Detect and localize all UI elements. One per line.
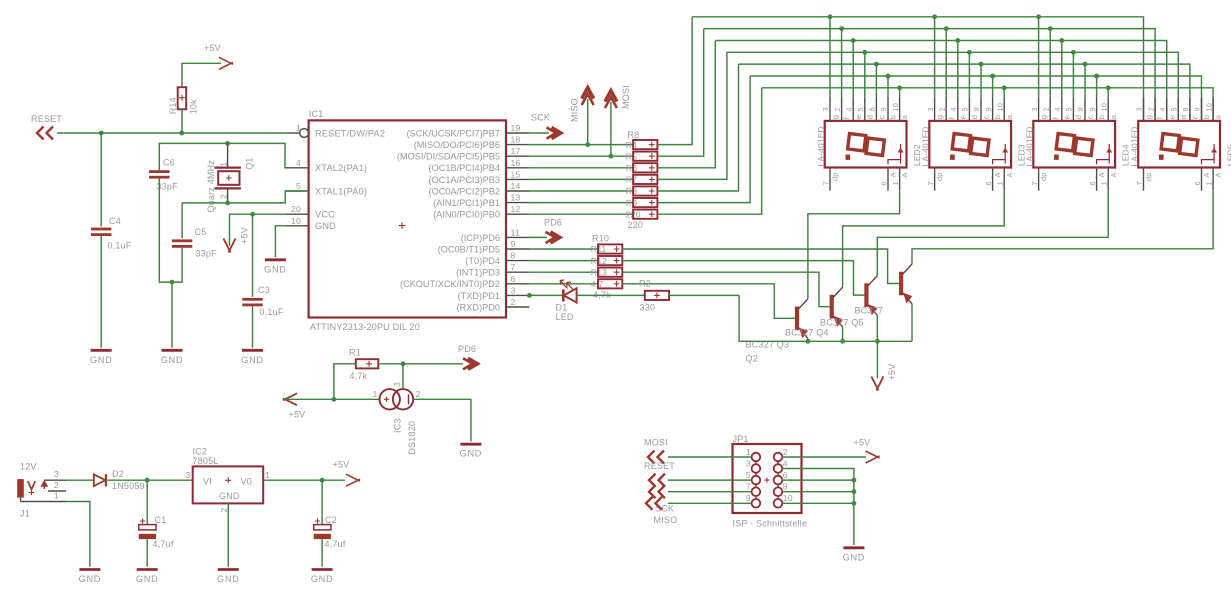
wire drop L3 to display 1 [852,41,854,99]
svg-text:A: A [1109,172,1118,177]
wire IC2 GND pin to ground [227,503,229,566]
port arrow MOSI (JP1) [648,451,664,464]
svg-text:DS1820: DS1820 [407,421,417,455]
svg-text:GND: GND [460,449,483,459]
svg-text:Q2: Q2 [746,354,758,364]
junction bus L5 display 1 drop [874,62,878,66]
wire drop L4 to display 2 [968,52,970,98]
wire IC pin to resistor R8 row 2 [529,155,633,157]
svg-text:dp: dp [1039,172,1048,181]
svg-text:1: 1 [54,490,59,500]
svg-text:5: 5 [296,181,301,191]
svg-text:7: 7 [821,181,830,185]
wire IC pin to resistor R8 row 7 [529,213,633,215]
wire R10.4 to transistor base Q2 [622,284,795,319]
svg-text:3: 3 [746,458,751,468]
svg-text:RESET: RESET [31,114,62,124]
svg-text:4: 4 [844,107,853,111]
svg-text:b: b [1202,115,1211,119]
svg-text:6: 6 [1088,181,1097,185]
wire resistor R8.7 to top bundle [657,88,761,214]
resistor R1 [356,359,379,368]
svg-text:dp: dp [831,172,840,181]
transistor Q5 BC327 [899,272,903,296]
wire JP1 pin8 to rail [782,491,854,493]
transistor Q3 BC327 [830,295,834,319]
svg-text:(RXD)PD0: (RXD)PD0 [457,302,500,312]
svg-text:12V: 12V [20,462,37,472]
junction bus L1 display 1 drop [828,15,832,19]
svg-text:XTAL2(PA1): XTAL2(PA1) [315,163,367,173]
ground JP1 [843,546,864,549]
svg-text:R2: R2 [639,279,651,289]
wire segment bus line L4 [727,52,1178,121]
junction bus L1 display 2 drop [933,15,937,19]
supply +5V arrow (down, rail) [871,377,883,391]
svg-text:A: A [1202,172,1211,177]
svg-text:c: c [1086,115,1095,119]
wire segment bus line L5 [739,64,1190,121]
svg-text:a: a [1109,114,1118,119]
junction bus L7 display 1 drop [898,86,902,90]
wire VCC to C3 [252,214,254,297]
svg-text:GND: GND [219,491,240,501]
svg-text:IC1: IC1 [309,109,324,119]
svg-text:g: g [831,115,840,119]
svg-text:0,1uF: 0,1uF [108,241,132,251]
port arrow RESET (JP1) [649,474,665,487]
capacitor C3 [242,298,262,301]
svg-text:17: 17 [511,146,521,156]
wire resistor R8.6 to top bundle [657,76,750,203]
svg-text:19: 19 [511,123,521,133]
svg-text:(OC0B/T1)PD5: (OC0B/T1)PD5 [438,244,500,254]
IC IC1 ATTINY2313 box [309,120,506,317]
svg-text:9: 9 [879,107,888,111]
svg-text:9: 9 [746,493,751,503]
svg-text:VI: VI [203,477,212,487]
svg-text:e: e [854,115,863,119]
transistor Q4 BC327 [864,283,868,307]
junction C6/C5 ground join [170,280,174,284]
display LED4 LA-401ED box [1033,121,1115,168]
wire display LED2 anode to Q2 collector [808,191,900,299]
wire segment bus line L3 [715,41,1166,121]
svg-text:GND: GND [136,574,159,584]
junction bus L3 display 2 drop [956,38,960,42]
svg-text:d: d [865,115,874,119]
svg-text:7: 7 [1135,181,1144,185]
wire resistor R8.2 to top bundle [657,29,703,157]
svg-text:LA-401ED: LA-401ED [1025,126,1035,166]
svg-text:3: 3 [926,107,935,111]
svg-text:+5V: +5V [204,43,221,53]
wire R2 to +5V rail [668,294,739,296]
svg-text:3: 3 [821,107,830,111]
port arrow RESET (left double chevron) [37,127,53,140]
junction MISO tap [586,143,590,147]
junction bus L3 display 3 drop [1060,38,1064,42]
svg-text:5: 5 [1170,107,1179,111]
port arrow SCK (JP1) [649,485,665,498]
svg-text:9: 9 [984,107,993,111]
svg-text:ISP - Schnittstelle: ISP - Schnittstelle [733,519,808,529]
wire C3 to GND [252,306,254,348]
svg-text:4: 4 [1158,107,1167,111]
junction bus L1 display 3 drop [1037,15,1041,19]
crystal Q1 [227,143,229,167]
net GND wire (pin 10) [275,226,285,257]
wire RESET to JP1 pin5 [668,479,752,481]
svg-text:1: 1 [265,470,270,480]
svg-text:18: 18 [511,135,521,145]
svg-text:4: 4 [296,158,301,168]
svg-text:(AIN0/PCI0)PB0: (AIN0/PCI0)PB0 [433,210,500,220]
svg-text:+5V: +5V [240,227,250,244]
junction bus L4 display 3 drop [1071,50,1075,54]
wire JP1 pin2 to +5V [782,456,866,458]
svg-text:BC327 Q4: BC327 Q4 [785,327,829,337]
svg-text:R8: R8 [628,130,640,140]
wire drop L5 to display 2 [980,64,982,98]
svg-text:GND: GND [311,574,334,584]
net SCK wire [529,132,549,134]
display LED3 bottom pin stubs (7/dp, 6, 1/A) [934,168,936,191]
wire drop L7 to display 3 [1107,88,1109,98]
wire drop L5 to display 1 [875,64,877,98]
wire drop L7 to display 1 [899,88,901,98]
wire +5V emitter rail [739,295,912,341]
wire J1 pin1 to GND [66,502,90,567]
net XTAL2 wire (C6 top to pin 4) [159,143,285,170]
display LED3 LA-401ED box [929,121,1011,168]
supply +5V arrow (power out) [346,474,360,486]
svg-text:RESET: RESET [644,461,675,471]
IC1 left pin stubs (pin1 with inverter bubble, pins 4,5,20,10) [285,132,299,134]
svg-text:LA-401ED: LA-401ED [1130,126,1140,166]
port arrow MOSI (up) [605,91,617,102]
svg-text:6: 6 [511,274,516,284]
wire segment bus line L7 [762,88,1213,121]
svg-text:10: 10 [783,493,793,503]
wire drop L7 to display 2 [1003,88,1005,98]
display LED4 seven-segment digit [1056,134,1093,156]
connector J1 power jack [17,479,24,498]
svg-text:10: 10 [1204,103,1213,112]
svg-text:13: 13 [511,193,521,203]
svg-text:12: 12 [511,204,521,214]
svg-text:1: 1 [296,123,301,133]
junction bus L6 display 1 drop [886,74,890,78]
svg-text:d: d [1179,115,1188,119]
wire segment bus line L6 [750,76,1201,121]
net MISO stem wire [587,99,589,145]
wire MISO to JP1 pin9 [668,502,752,504]
wire drop L6 to display 1 [887,76,889,98]
svg-text:g: g [1039,115,1048,119]
junction bus L3 display 1 drop [851,38,855,42]
supply +5V arrow (down, VCC) [224,239,236,253]
wire C1 to GND [146,539,148,567]
wire RESET to C4 [100,133,102,227]
junction bus L7 display 3 drop [1106,86,1110,90]
display LED5 bottom pin stubs (7/dp, 6, 1/A) [1143,168,1145,191]
svg-text:(OC1B/PCI4)PB4: (OC1B/PCI4)PB4 [429,163,500,173]
supply +5V arrow (top left) [219,57,233,69]
svg-text:7: 7 [746,482,751,492]
wire drop L1 to display 3 [1038,17,1040,98]
svg-text:6: 6 [1193,181,1202,185]
svg-text:7: 7 [1030,181,1039,185]
wire drop L5 to display 3 [1084,64,1086,98]
svg-text:MOSI: MOSI [621,85,631,109]
ground DS1820 [460,443,481,446]
svg-text:2: 2 [833,107,842,111]
capacitor C4 [91,228,111,231]
svg-text:8: 8 [868,107,877,111]
svg-text:PD6: PD6 [544,218,562,228]
svg-text:A: A [889,172,898,177]
capacitor C6 [149,170,169,173]
svg-text:(OC1A/PCI3)PB3: (OC1A/PCI3)PB3 [429,175,500,185]
svg-text:g: g [935,115,944,119]
ground at pin 10 [265,258,286,261]
wire R1 left to +5V net [334,364,356,400]
junction bus L6 display 2 drop [991,74,995,78]
svg-text:2: 2 [219,194,228,199]
svg-text:2: 2 [937,107,946,111]
svg-text:C3: C3 [258,285,270,295]
port arrow SCK [552,127,562,138]
svg-text:3: 3 [1135,107,1144,111]
net RESET wire [57,132,285,134]
svg-text:D1: D1 [556,303,568,313]
svg-text:GND: GND [843,552,866,562]
svg-text:MISO: MISO [654,515,678,525]
svg-text:(SCK/UCSK/PCI7)PB7: (SCK/UCSK/PCI7)PB7 [407,128,500,138]
svg-text:V0: V0 [241,477,252,487]
svg-text:IC3: IC3 [393,418,403,433]
svg-text:(MISO/DO/PCI6)PB6: (MISO/DO/PCI6)PB6 [414,140,500,150]
diode D2 1N5059 [94,474,106,486]
svg-text:16: 16 [511,158,521,168]
junction C2 tap [320,478,324,482]
svg-text:dp: dp [935,172,944,181]
junction rail pin8 [852,490,856,494]
svg-text:+5V: +5V [854,438,871,448]
svg-text:33pF: 33pF [196,249,218,259]
wire segment bus line L2 [704,29,1155,121]
port arrow PD6 (at IC) [551,232,561,243]
svg-text:(TXD)PD1: (TXD)PD1 [458,291,500,301]
svg-text:MISO: MISO [570,98,580,122]
junction C1 tap [145,478,149,482]
svg-text:c: c [1191,115,1200,119]
wire IC pin to resistor R8 row 5 [529,190,633,192]
port arrow PD6 (DS1820) [468,358,478,369]
junction rail pin10 [852,501,856,505]
wire D2 to IC2 VI [106,479,193,481]
junction C4 tap [99,131,103,135]
resistor R2 [645,291,669,300]
svg-text:330: 330 [640,303,656,313]
svg-text:3: 3 [54,469,59,479]
svg-text:5: 5 [746,470,751,480]
svg-text:10k: 10k [188,99,198,114]
net MOSI stem wire [610,102,612,156]
temperature sensor IC3 DS1820 [380,389,400,409]
svg-text:+5V: +5V [289,410,306,420]
connector JP1 box [733,444,802,513]
IC1 right pin stubs [506,132,529,134]
wire IC2 VO to +5V [263,479,345,481]
svg-text:c: c [877,115,886,119]
svg-text:11: 11 [511,227,520,237]
wire drop L3 to display 2 [957,41,959,99]
wire display LED4 anode to Q4 collector [877,191,1108,276]
wire drop L4 to display 1 [864,52,866,98]
svg-text:4,7k: 4,7k [350,371,368,381]
svg-text:1: 1 [746,447,751,457]
display LED2 internal anode mark [888,144,901,164]
svg-text:GND: GND [264,264,287,274]
svg-text:7805L: 7805L [193,456,219,466]
svg-text:3: 3 [511,285,516,295]
svg-text:10: 10 [995,103,1004,112]
wire drop L3 to display 3 [1061,41,1063,99]
svg-text:9: 9 [1088,107,1097,111]
svg-text:2: 2 [783,447,788,457]
ground under J1 [79,568,100,571]
wire IC pin to resistor R10 row 4 [529,283,598,285]
svg-text:A: A [1214,172,1223,177]
svg-text:+5V: +5V [887,364,897,381]
svg-text:R10: R10 [592,234,609,244]
wire SCK to JP1 pin7 [668,491,752,493]
junction emitter rail [806,339,810,343]
svg-text:1: 1 [373,389,378,399]
transistor Q2 BC327 [795,307,799,331]
LED D1 [562,289,565,301]
wire DS1820 pin2 to GND [413,399,471,441]
wire Q4 emitter to +5V rail [876,315,878,341]
svg-text:+5V: +5V [333,460,350,470]
junction bus L2 display 3 drop [1048,27,1052,31]
J1 pin stubs [44,479,66,481]
display LED3 top pin stubs [934,98,936,121]
wire R14 top to +5V [182,63,221,87]
svg-text:b: b [1097,115,1106,119]
svg-text:LED: LED [556,312,574,322]
svg-text:Quarz 4MHz: Quarz 4MHz [206,160,216,213]
svg-text:1: 1 [219,162,228,167]
ground under IC2 [218,568,239,571]
port arrow +5V (left) [283,393,297,405]
svg-text:1: 1 [891,181,900,185]
wire drop L2 to display 1 [841,29,843,98]
svg-text:b: b [993,115,1002,119]
svg-text:GND: GND [241,355,264,365]
svg-text:10: 10 [891,103,900,112]
svg-text:6: 6 [783,470,788,480]
display LED5 internal anode mark [1202,144,1215,164]
svg-text:VCC: VCC [315,210,335,220]
wire IC pin to resistor R8 row 3 [529,167,633,169]
svg-text:b: b [889,115,898,119]
wire drop L6 to display 2 [992,76,994,98]
wire MOSI to JP1 pin1 [668,456,752,458]
wire JP1 pin6 to rail [782,479,854,481]
svg-text:4: 4 [783,458,788,468]
svg-text:6: 6 [984,181,993,185]
wire to C2 [321,480,323,525]
display LED2 top pin stubs [829,98,831,121]
wire drop L1 to display 2 [934,17,936,98]
ground under C1 [137,568,158,571]
net PD6 wire (pin 11) [529,236,547,238]
ground under C5/C6 [162,349,183,352]
svg-text:C2: C2 [325,515,337,525]
resistor R14 vertical [178,87,187,109]
wire drop L2 to display 2 [945,29,947,98]
wire IC pin to resistor R10 row 3 [529,271,598,273]
svg-text:GND: GND [90,355,113,365]
svg-text:a: a [1005,114,1014,119]
svg-text:7: 7 [926,181,935,185]
display LED2 LA-401ED box [825,121,907,168]
wire IC pin to resistor R10 row 2 [529,260,598,262]
svg-text:XTAL1(PA0): XTAL1(PA0) [315,186,367,196]
wire IC pin to resistor R8 row 6 [529,202,633,204]
svg-text:RESET/DW/PA2: RESET/DW/PA2 [315,128,385,138]
svg-text:20: 20 [291,204,301,214]
svg-text:GND: GND [217,574,240,584]
svg-text:3: 3 [392,382,402,387]
svg-text:GND: GND [79,574,102,584]
wire Q3 emitter to +5V rail [842,327,844,341]
wire J1 pin3 to D2 [66,479,94,481]
wire R14 bottom to RESET net [181,109,183,133]
svg-text:d: d [1074,115,1083,119]
svg-text:BC327: BC327 [855,305,884,315]
wire JP1 pin10 to rail [782,502,854,504]
junction bus L5 display 3 drop [1083,62,1087,66]
wire R10.3 to transistor base Q3 [622,272,830,307]
junction emitter rail [875,339,879,343]
svg-text:e: e [1062,115,1071,119]
junction rail pin6 [852,478,856,482]
junction emitter rail [841,339,845,343]
svg-text:(CKOUT/XCK/INT0)PD2: (CKOUT/XCK/INT0)PD2 [400,279,500,289]
svg-text:ATTINY2313-20PU DIL 20: ATTINY2313-20PU DIL 20 [310,322,420,332]
wire JP1 pin4 to ground rail [782,469,854,546]
svg-text:a: a [900,114,909,119]
junction bus L4 display 1 drop [863,50,867,54]
port arrow MISO (JP1) [646,497,662,510]
svg-text:R1: R1 [349,348,361,358]
svg-text:4: 4 [1053,107,1062,111]
svg-text:8: 8 [1076,107,1085,111]
wire LED to R2 [577,294,645,296]
svg-text:4: 4 [949,107,958,111]
display LED5 LA-401ED box [1138,121,1220,168]
svg-text:C6: C6 [163,158,175,168]
svg-text:8: 8 [1181,107,1190,111]
junction bus L7 display 2 drop [1002,86,1006,90]
wire R10.1 to transistor base Q5 [622,249,899,284]
wire R1 right to PD6 arrow [378,363,463,365]
wire IC pin to resistor R8 row 1 [529,144,633,146]
